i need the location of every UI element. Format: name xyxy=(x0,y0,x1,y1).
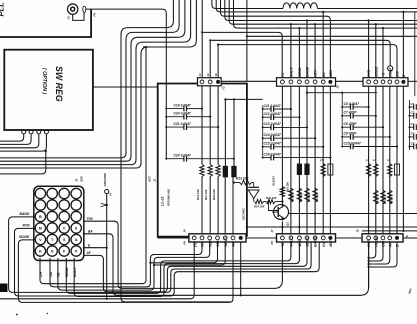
wire SEND xyxy=(66,242,291,293)
J8 pin 1 xyxy=(367,236,371,240)
wire xyxy=(368,19,370,21)
wire xyxy=(317,8,417,10)
component box xyxy=(395,164,400,175)
capacitor C20 xyxy=(165,116,167,118)
svg-text:SEND: SEND xyxy=(65,267,69,277)
wire xyxy=(382,27,384,29)
wire xyxy=(289,213,417,215)
resistor R15 xyxy=(266,199,275,203)
svg-text:R16 100: R16 100 xyxy=(285,182,289,192)
capacitor C7 xyxy=(341,115,343,117)
keypad button xyxy=(71,211,81,221)
wire xyxy=(247,35,417,37)
J7 pin 2 xyxy=(289,236,293,240)
wire xyxy=(369,242,383,261)
J5 pin 3 xyxy=(298,80,302,84)
keypad button xyxy=(35,223,45,233)
SW REG pin 2 xyxy=(29,130,33,134)
connector J7 xyxy=(277,234,336,242)
svg-text:R4 1K: R4 1K xyxy=(383,195,387,204)
svg-text:M: M xyxy=(39,226,42,230)
svg-text:C7 470P: C7 470P xyxy=(344,111,358,115)
svg-text:32W: 32W xyxy=(80,176,84,182)
capacitor C16 xyxy=(262,157,264,159)
capacitor C23 xyxy=(165,158,167,160)
wire RYR xyxy=(15,228,320,296)
keypad button xyxy=(71,234,81,244)
svg-text:AF: AF xyxy=(388,241,392,248)
wire AALC xyxy=(74,242,299,297)
wire xyxy=(290,23,292,25)
rail xyxy=(306,86,308,234)
rail xyxy=(314,86,316,234)
keypad button xyxy=(59,246,69,256)
svg-text:J3: J3 xyxy=(75,178,79,182)
resistor R8 xyxy=(297,188,301,202)
capacitor C11 xyxy=(262,108,264,110)
svg-text:K: K xyxy=(39,249,42,253)
rail xyxy=(329,86,331,234)
wire xyxy=(0,134,24,141)
pin 1 xyxy=(200,80,204,84)
wire xyxy=(225,0,417,21)
J4 pin 2 xyxy=(200,236,204,240)
svg-text:NSP: NSP xyxy=(208,239,212,247)
rail xyxy=(322,86,324,234)
capacitor C25 xyxy=(232,166,237,177)
svg-text:13A: 13A xyxy=(216,240,220,247)
svg-text:C19 0.0047: C19 0.0047 xyxy=(174,103,191,107)
wire xyxy=(225,98,262,100)
wire xyxy=(217,44,219,46)
jack J9 xyxy=(388,66,393,71)
inductor L1 loops xyxy=(283,3,317,9)
svg-text:E: E xyxy=(396,244,400,247)
J8 pin 3 xyxy=(381,236,385,240)
wire E xyxy=(84,247,107,249)
capacitor C4 xyxy=(409,136,411,138)
resistor R13 xyxy=(240,180,252,184)
J7 pin 4 xyxy=(305,236,309,240)
svg-text:P6: P6 xyxy=(270,241,274,245)
capacitor C2 xyxy=(409,115,411,117)
svg-text:RYR: RYR xyxy=(23,224,31,228)
J7 pin 5 xyxy=(313,236,317,240)
pin J-GND xyxy=(105,189,109,193)
wire xyxy=(375,23,377,25)
pin 2 xyxy=(208,80,212,84)
svg-text:Y4: Y4 xyxy=(109,192,113,196)
capacitor C21 xyxy=(165,126,167,128)
scan dot xyxy=(16,314,18,316)
transistor Q1 xyxy=(274,205,289,220)
wire xyxy=(224,99,226,166)
keypad button xyxy=(47,223,57,233)
svg-text:10: 10 xyxy=(214,73,218,76)
wire xyxy=(201,0,203,78)
J6 pin 2 xyxy=(374,80,378,84)
svg-text:BAND: BAND xyxy=(20,212,30,216)
svg-text:T: T xyxy=(51,238,54,242)
J5 pin 2 xyxy=(289,80,293,84)
svg-text:13: 13 xyxy=(198,73,202,76)
svg-text:J8: J8 xyxy=(356,229,360,233)
wire xyxy=(0,242,194,299)
J4 pin 6 xyxy=(231,236,235,240)
svg-text:KEY: KEY xyxy=(407,287,413,295)
svg-text:8T01N0-A61: 8T01N0-A61 xyxy=(167,188,171,206)
wire xyxy=(240,242,242,295)
keypad button xyxy=(47,234,57,244)
connector J4 xyxy=(189,234,246,242)
J8 pin 2 xyxy=(374,236,378,240)
svg-text:PLL: PLL xyxy=(0,2,6,17)
wire xyxy=(106,194,108,248)
wire xyxy=(232,177,234,234)
connector row wire xyxy=(246,237,277,239)
svg-text:C3: C3 xyxy=(411,122,415,126)
svg-text:12: 12 xyxy=(206,73,210,76)
svg-text:P4: P4 xyxy=(183,241,187,245)
connector J8 xyxy=(362,234,403,242)
svg-text:1M: 1M xyxy=(49,272,53,277)
svg-text:A1015Y: A1015Y xyxy=(272,175,276,187)
resistor R14 xyxy=(255,199,264,203)
J7 pin 7 xyxy=(328,236,332,240)
svg-text:BA: BA xyxy=(88,230,93,234)
svg-text:GROUND: GROUND xyxy=(103,172,107,186)
rail xyxy=(382,86,384,234)
wire xyxy=(369,242,376,258)
rail xyxy=(298,86,300,234)
svg-text:R7 220: R7 220 xyxy=(307,193,311,202)
svg-text:AF: AF xyxy=(86,251,92,255)
svg-text:C2: C2 xyxy=(411,111,415,115)
svg-text:E: E xyxy=(75,226,78,230)
svg-text:SEND: SEND xyxy=(306,237,310,247)
svg-text:J1: J1 xyxy=(153,178,157,182)
wire xyxy=(246,0,248,81)
wire xyxy=(150,242,217,263)
resistor R3 xyxy=(388,190,392,204)
svg-text:Y2: Y2 xyxy=(222,86,226,90)
svg-text:B: B xyxy=(39,215,42,219)
J4 pin 4 xyxy=(216,236,220,240)
module box edge xyxy=(158,84,198,237)
rail xyxy=(402,86,404,231)
J4 pin 3 xyxy=(208,236,212,240)
wire xyxy=(234,0,417,28)
rail xyxy=(375,86,377,234)
wire xyxy=(0,0,179,158)
rail xyxy=(290,86,292,234)
wire xyxy=(369,242,390,264)
keypad button xyxy=(59,234,69,244)
wire xyxy=(209,40,211,77)
wire xyxy=(414,12,416,96)
svg-text:CW: CW xyxy=(382,240,386,247)
wire xyxy=(247,226,417,228)
J7 pin 3 xyxy=(298,236,302,240)
ground arrow xyxy=(106,204,108,206)
J4 pin 7 xyxy=(239,236,243,240)
wire xyxy=(221,0,331,78)
wire xyxy=(0,0,185,161)
svg-text:P: P xyxy=(75,249,78,253)
svg-text:A: A xyxy=(75,238,78,242)
capacitor C3 xyxy=(409,126,411,128)
wire TRV xyxy=(84,221,283,288)
rail xyxy=(217,177,219,234)
capacitor C1 xyxy=(409,106,411,108)
J4 pin 5 xyxy=(223,236,227,240)
svg-text:RYR: RYR xyxy=(367,69,371,77)
wire 1M xyxy=(50,242,202,287)
rail xyxy=(262,106,264,158)
svg-text:E: E xyxy=(88,244,91,248)
wire Q1 base lead xyxy=(269,202,278,211)
svg-text:A4: A4 xyxy=(232,242,236,248)
wire xyxy=(121,0,230,302)
svg-text:SEND: SEND xyxy=(224,237,228,247)
svg-text:C15 0.0047: C15 0.0047 xyxy=(264,142,281,146)
wire xyxy=(298,27,300,29)
capacitor C19 xyxy=(165,108,167,110)
capacitor C8 xyxy=(341,126,343,128)
J7 pin 1 xyxy=(281,236,285,240)
rail xyxy=(201,86,203,165)
svg-text:R12 220: R12 220 xyxy=(196,189,200,200)
svg-text:AALC: AALC xyxy=(290,67,294,78)
svg-text:L1~L9: L1~L9 xyxy=(161,196,165,206)
keypad button xyxy=(47,188,57,198)
keypad button xyxy=(35,234,45,244)
rail xyxy=(201,177,203,234)
PLL box xyxy=(0,9,91,37)
J4 pin 1 xyxy=(192,236,196,240)
keypad button xyxy=(35,200,45,210)
rail xyxy=(389,86,391,234)
svg-text:C8 470P: C8 470P xyxy=(344,122,358,126)
keypad button xyxy=(59,200,69,210)
svg-text:C1: C1 xyxy=(411,102,415,106)
keypad button xyxy=(59,211,69,221)
wire xyxy=(362,230,417,232)
wire xyxy=(253,199,255,202)
wire xyxy=(224,177,226,234)
wire xyxy=(209,39,211,41)
keypad outline xyxy=(34,186,84,260)
svg-text:T3: T3 xyxy=(281,73,285,77)
wire xyxy=(275,201,282,203)
svg-text:R15 10K: R15 10K xyxy=(266,196,278,200)
keypad button xyxy=(71,188,81,198)
resistor R6 xyxy=(313,188,317,202)
svg-text:C11 0.0047: C11 0.0047 xyxy=(264,104,281,108)
wire xyxy=(402,11,404,13)
svg-text:BAND: BAND xyxy=(314,236,318,247)
capacitor C10 xyxy=(341,146,343,148)
capacitor C6 xyxy=(341,106,343,108)
J5 pin 6 xyxy=(321,80,325,84)
resistor R9 xyxy=(289,188,293,202)
rail xyxy=(396,86,398,234)
svg-text:CH: CH xyxy=(39,271,43,277)
capacitor C5 xyxy=(409,146,411,148)
resistor R10 xyxy=(216,165,220,177)
svg-text:2SC3402: 2SC3402 xyxy=(242,208,246,221)
svg-text:J7: J7 xyxy=(270,229,274,233)
svg-text:BAND: BAND xyxy=(306,66,310,77)
svg-text:R11 220: R11 220 xyxy=(204,189,208,200)
svg-text:R8 220: R8 220 xyxy=(299,193,303,202)
capacitor C12 xyxy=(262,116,264,118)
svg-text:AALC: AALC xyxy=(290,237,294,248)
svg-text:R9 220: R9 220 xyxy=(291,193,295,202)
keypad button xyxy=(35,246,45,256)
svg-text:F: F xyxy=(63,249,66,253)
wire xyxy=(201,31,203,33)
wire xyxy=(212,0,283,9)
connector J6 xyxy=(363,78,408,87)
keypad button xyxy=(47,200,57,210)
wire xyxy=(0,134,46,151)
svg-text:D: D xyxy=(51,249,54,253)
wire xyxy=(229,0,417,24)
connector J2 xyxy=(198,78,222,86)
wire xyxy=(368,242,370,287)
jack J1 xyxy=(68,4,78,14)
rail Q1 emitter xyxy=(281,222,283,234)
J5 pin 1 xyxy=(281,80,285,84)
resistor R5 xyxy=(374,190,378,204)
J6 pin 4 xyxy=(388,80,392,84)
J5 pin 5 xyxy=(313,80,317,84)
wire xyxy=(154,242,225,265)
wire xyxy=(0,151,46,174)
svg-text:R14 10K: R14 10K xyxy=(254,205,266,209)
svg-text:MODE: MODE xyxy=(374,66,378,77)
svg-text:CW: CW xyxy=(396,70,400,77)
SW REG pin 3 xyxy=(37,130,41,134)
rail xyxy=(368,86,370,234)
svg-text:P2: P2 xyxy=(93,12,97,16)
connector J5 xyxy=(277,78,336,87)
J8 pin 4 xyxy=(388,236,392,240)
svg-text:C20 0.0047: C20 0.0047 xyxy=(174,112,191,116)
wire xyxy=(0,134,39,148)
svg-text:RYR: RYR xyxy=(367,239,371,247)
svg-text:C16 0.0047: C16 0.0047 xyxy=(264,152,281,156)
chip xyxy=(297,164,301,175)
resistor R16 xyxy=(280,187,284,198)
keypad button xyxy=(71,246,81,256)
svg-text:C21 0.0047: C21 0.0047 xyxy=(174,122,191,126)
wire xyxy=(217,45,219,78)
svg-text:( OPTION ): ( OPTION ) xyxy=(41,68,47,94)
J7 pin 6 xyxy=(321,236,325,240)
SW REG box xyxy=(4,50,93,130)
svg-text:C13 0.0047: C13 0.0047 xyxy=(264,122,281,126)
wire xyxy=(306,19,308,21)
module box edge xyxy=(221,84,247,237)
rail xyxy=(209,86,211,165)
svg-text:J1: J1 xyxy=(67,16,71,20)
rail xyxy=(341,93,343,148)
svg-text:S: S xyxy=(63,238,66,242)
svg-text:E: E xyxy=(402,74,406,77)
pin 3 xyxy=(216,80,220,84)
J6 pin 5 xyxy=(395,80,399,84)
inductor L9 xyxy=(388,164,392,177)
svg-text:7B: 7B xyxy=(57,272,61,277)
wire xyxy=(216,0,417,12)
svg-text:C6 0.0047: C6 0.0047 xyxy=(344,102,360,106)
wire BAND xyxy=(9,217,312,293)
inductor L8 xyxy=(374,164,378,177)
keypad button xyxy=(47,246,57,256)
capacitor C15 xyxy=(262,146,264,148)
svg-text:12.8: 12.8 xyxy=(298,240,302,247)
SW REG pin 1 xyxy=(22,130,26,134)
svg-text:ACC: ACC xyxy=(148,175,152,183)
keypad button xyxy=(71,200,81,210)
wire xyxy=(234,182,240,184)
rail xyxy=(217,86,219,165)
svg-text:+5: +5 xyxy=(382,73,386,77)
wire xyxy=(314,23,316,25)
wire xyxy=(93,86,158,88)
diode D1 xyxy=(248,186,259,188)
svg-text:SEND: SEND xyxy=(298,67,302,77)
svg-text:NB3: NB3 xyxy=(329,70,333,77)
rail Q1 collector xyxy=(281,86,283,207)
svg-text:C12 0.0047: C12 0.0047 xyxy=(264,112,281,116)
wire BA xyxy=(84,234,369,295)
svg-text:C5: C5 xyxy=(411,141,415,145)
svg-text:C9 470P: C9 470P xyxy=(344,132,358,136)
inductor L5 xyxy=(321,164,325,177)
capacitor C9 xyxy=(341,136,343,138)
svg-text:R6 220: R6 220 xyxy=(315,193,319,202)
capacitor C24 xyxy=(223,166,228,177)
chip xyxy=(305,164,309,175)
wire CH xyxy=(40,47,146,284)
svg-text:C23 0.0047: C23 0.0047 xyxy=(174,154,191,158)
J6 pin 1 xyxy=(367,80,371,84)
scan dot xyxy=(47,313,48,314)
svg-text:C4: C4 xyxy=(411,132,415,136)
rail xyxy=(209,177,211,234)
wire xyxy=(233,99,235,166)
svg-text:Q1: Q1 xyxy=(286,222,290,226)
svg-text:KEY: KEY xyxy=(314,69,318,77)
svg-text:T8: T8 xyxy=(281,243,285,247)
J6 pin 3 xyxy=(381,80,385,84)
svg-text:R3 1K: R3 1K xyxy=(390,195,394,204)
wire jack to bus xyxy=(86,9,167,159)
svg-text:V: V xyxy=(39,238,42,242)
wire xyxy=(369,242,397,267)
J8 pin 5 xyxy=(395,236,399,240)
wire xyxy=(0,0,196,168)
connector row wire xyxy=(221,80,276,82)
resistor R4 xyxy=(381,190,385,204)
svg-text:SW REG: SW REG xyxy=(54,66,64,102)
svg-text:TRV: TRV xyxy=(87,217,94,221)
svg-text:AALC: AALC xyxy=(73,267,77,278)
svg-text:MW: MW xyxy=(329,240,333,247)
